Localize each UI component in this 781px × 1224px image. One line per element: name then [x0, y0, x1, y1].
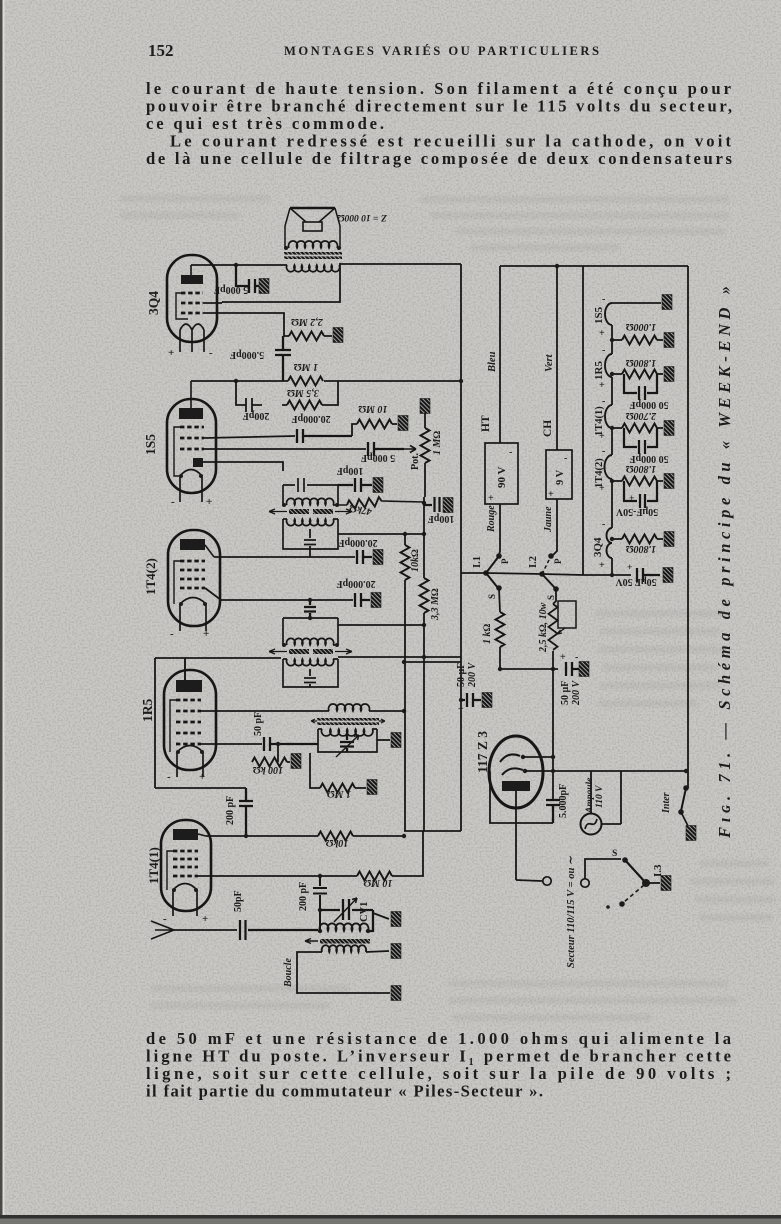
svg-text:-: - — [602, 519, 605, 530]
wire: commutation bus row — [461, 573, 583, 575]
capacitor 200pF + resistor 3,5M branch — [236, 381, 262, 412]
svg-text:1S5: 1S5 — [143, 434, 158, 455]
svg-text:50 000pF: 50 000pF — [629, 453, 668, 464]
node 200pF junction — [244, 834, 248, 838]
ground terminal — [391, 912, 401, 927]
tube 1T4(1) grid bracket — [167, 851, 173, 890]
svg-text:100 kΩ: 100 kΩ — [253, 764, 284, 775]
svg-text:50 μF: 50 μF — [456, 663, 467, 687]
svg-text:200 pF: 200 pF — [298, 882, 309, 911]
wire: filament to lamp row — [525, 770, 686, 772]
svg-text:1.800Ω: 1.800Ω — [626, 357, 657, 368]
tube 1S5 envelope — [167, 399, 216, 493]
svg-text:I.3: I.3 — [652, 864, 664, 877]
svg-text:-: - — [564, 453, 567, 464]
capacitor 20.000pF screen — [355, 593, 370, 607]
svg-text:10 MΩ: 10 MΩ — [358, 403, 387, 414]
tube 3Q4 grids — [181, 293, 203, 313]
svg-text:Bleu: Bleu — [487, 351, 498, 373]
svg-text:il fait partie du commutateur: il fait partie du commutateur « Piles-Se… — [146, 1082, 543, 1101]
resistor 1.000 ohm — [612, 339, 622, 341]
tube 1R5 grids — [176, 700, 201, 744]
tube 1T4(1) envelope — [161, 820, 211, 911]
wire: antenna row — [174, 929, 237, 931]
svg-text:Ampoule: Ampoule — [585, 777, 595, 814]
svg-text:Boucle: Boucle — [283, 958, 294, 988]
capacitor IF2 top coupling — [304, 600, 316, 618]
variable capacitor CV1 — [320, 899, 373, 931]
svg-text:1.800Ω: 1.800Ω — [626, 543, 657, 554]
node — [422, 623, 426, 627]
svg-text:100pF: 100pF — [337, 465, 364, 476]
lamp vertical — [590, 771, 592, 813]
svg-text:10kΩ: 10kΩ — [325, 837, 348, 848]
left page edge — [0, 0, 3, 1224]
svg-text:1 MΩ: 1 MΩ — [432, 431, 443, 455]
svg-text:1 kΩ: 1 kΩ — [482, 624, 493, 645]
svg-text:+: + — [627, 563, 632, 573]
svg-text:-: - — [602, 396, 605, 407]
wire: B+ vertical rail — [460, 264, 462, 831]
capacitor 100pF IF1 — [338, 478, 372, 492]
node — [551, 667, 555, 671]
resistor 100k — [252, 758, 287, 767]
node CV1 junction — [318, 908, 322, 912]
wire: right rail — [687, 266, 689, 788]
tube 1R5 anode — [176, 680, 202, 692]
svg-text:+: + — [560, 652, 566, 663]
battery HT 90V box — [485, 443, 518, 504]
ground terminal — [291, 754, 301, 769]
tube 1T4(2) envelope — [168, 530, 220, 626]
wire: cathode vertical to rectifier — [552, 669, 554, 800]
svg-text:9 V: 9 V — [555, 469, 566, 485]
wire: Bleu line — [499, 266, 501, 443]
tube 1T4(2) grids — [180, 561, 205, 588]
svg-text:200 pF: 200 pF — [225, 796, 236, 825]
wire: Jaune line — [552, 499, 557, 556]
svg-text:+: + — [599, 560, 605, 571]
resistor 1M — [288, 377, 323, 386]
svg-text:S: S — [487, 594, 497, 599]
oscillator coil L1 top winding — [201, 710, 329, 712]
wire: 117Z3 left loop — [490, 771, 553, 823]
wire: cathode line — [515, 791, 517, 880]
svg-text:5.000pF: 5.000pF — [230, 349, 264, 360]
svg-text:1T4(2): 1T4(2) — [143, 558, 158, 595]
node — [555, 264, 559, 268]
svg-text:-: - — [509, 447, 512, 458]
node: anode junction — [234, 263, 238, 267]
wire: long row IF2 secondary bus — [338, 656, 461, 658]
IF transformer IF2 primary loop — [283, 618, 338, 645]
tube 3Q4 filament — [180, 324, 204, 352]
IF2 secondary coil — [287, 659, 334, 666]
svg-text:50 μF: 50 μF — [560, 681, 571, 705]
svg-text:20.000pF: 20.000pF — [336, 578, 375, 589]
svg-text:Pot.: Pot. — [410, 453, 421, 470]
117Z3 anode — [502, 781, 530, 791]
svg-text:1S5: 1S5 — [593, 306, 605, 324]
oscillator coil core — [317, 718, 379, 721]
resistor 10k — [318, 832, 353, 841]
svg-text:+: + — [168, 347, 174, 359]
svg-text:I.1: I.1 — [472, 556, 483, 568]
bottom page edge — [0, 1215, 781, 1219]
wire: HT top rail — [500, 265, 688, 267]
resistor 2,2M grid leak — [289, 332, 324, 341]
resistor 1.800 ohm output — [612, 538, 622, 540]
cell polarity labels — [599, 294, 605, 571]
svg-text:5.000pF: 5.000pF — [558, 784, 569, 818]
resistor 1M osc — [310, 753, 320, 788]
ground terminal — [373, 550, 383, 565]
resistor 3,5M — [287, 401, 322, 410]
svg-text:5 000pF: 5 000pF — [361, 452, 395, 463]
svg-text:1T4(1): 1T4(1) — [594, 406, 605, 436]
IF2 secondary trimmer — [304, 669, 316, 687]
tube 1T4(2) anode — [180, 539, 205, 550]
wire: bottom tie row — [404, 830, 461, 832]
svg-text:+: + — [599, 380, 605, 391]
svg-text:Fɪɢ. 71. — Schéma de principe: Fɪɢ. 71. — Schéma de principe du « WEEK-… — [715, 286, 734, 839]
svg-text:3,5 MΩ: 3,5 MΩ — [287, 387, 320, 398]
tube 1S5 anode — [179, 408, 203, 419]
IF2 primary coil — [287, 638, 334, 645]
capacitor 50uF 50V parallel loop — [624, 481, 657, 508]
resistor 10M — [357, 872, 392, 881]
svg-text:50 pF: 50 pF — [253, 712, 264, 736]
oscillator padder capacitor — [340, 733, 354, 752]
capacitor 200pF — [239, 788, 253, 836]
rectifier tube 117Z3 envelope — [489, 736, 543, 808]
svg-text:1R5: 1R5 — [593, 361, 605, 380]
wire: AF bus row — [191, 380, 461, 382]
capacitor 50uF 50V bus — [637, 568, 660, 582]
tube 1T4(1) filament — [173, 884, 197, 917]
resistor 1.800 ohm second — [612, 480, 622, 482]
input coil core — [320, 939, 370, 944]
svg-text:5 000pF: 5 000pF — [214, 284, 248, 295]
ground terminal — [371, 593, 381, 608]
wire: osc box to terminal — [377, 739, 390, 741]
loudspeaker — [285, 208, 340, 248]
svg-text:-: - — [575, 652, 578, 663]
wiper arrow into potentiometer — [404, 446, 416, 453]
capacitor 200pF grid — [313, 876, 327, 931]
wire: CV1 to terminal — [373, 913, 389, 919]
wire: IF1 secondary to 1T4(2) grid — [309, 549, 311, 557]
wire: parallel row — [404, 661, 461, 663]
svg-text:2,5 kΩ, 10w: 2,5 kΩ, 10w — [538, 602, 549, 653]
svg-text:50 000pF: 50 000pF — [629, 399, 668, 410]
capacitor 50pF — [264, 737, 318, 751]
IF1 secondary coil — [287, 519, 334, 526]
resistor 10M — [357, 420, 392, 429]
frame aerial (boucle) winding — [322, 945, 366, 952]
wire: boucle to terminal — [366, 951, 389, 952]
resistor 3,3M vertical — [420, 578, 429, 613]
capacitor 5.000pF RF filter — [546, 800, 560, 823]
capacitor 5.000pF coupling — [275, 336, 291, 381]
svg-text:+: + — [548, 489, 554, 500]
svg-text:-: - — [170, 628, 174, 640]
svg-text:10 MΩ: 10 MΩ — [363, 877, 392, 888]
wire: battery bottom bus — [583, 574, 631, 576]
paragraph bottom — [146, 1029, 732, 1101]
svg-text:Rouge: Rouge — [486, 505, 497, 533]
ground terminal — [482, 693, 492, 708]
svg-text:Z = 10 000Ω: Z = 10 000Ω — [337, 212, 388, 222]
wire: B+ line to right rail — [340, 263, 461, 265]
node — [308, 598, 312, 602]
ghost print-through — [120, 195, 775, 1021]
wire: filament to B plus — [523, 756, 553, 758]
wire: IF2 to 1R5 grid — [155, 658, 281, 788]
ground terminal — [391, 733, 401, 748]
svg-text:+: + — [629, 494, 634, 504]
transformer T1 core — [284, 252, 342, 255]
wire: 1R5 osc grid row — [201, 743, 262, 745]
IF transformer IF2 secondary loop — [283, 659, 338, 687]
svg-text:-: - — [171, 496, 175, 508]
wire: 1T4(1) grid row — [198, 875, 357, 877]
tube 1S5 grid bracket — [174, 427, 180, 476]
output transformer T1 primary — [287, 265, 340, 272]
capacitor 5000pF AVC — [368, 442, 404, 456]
svg-text:+: + — [199, 771, 205, 783]
svg-text:50μF-50V: 50μF-50V — [615, 506, 658, 517]
tube 1R5 filament — [177, 746, 203, 778]
capacitor 50 000pF parallel loop — [624, 428, 657, 454]
svg-text:1T4(1): 1T4(1) — [146, 847, 161, 884]
tube 1T4(1) grids — [173, 851, 198, 876]
tube 3Q4 grid bracket — [176, 293, 188, 319]
svg-text:110 V: 110 V — [595, 785, 605, 808]
IF2 core — [289, 649, 309, 654]
capacitor 20.000pF — [297, 429, 352, 443]
resistor 1.800 ohm — [612, 373, 622, 375]
tube 1T4(1) anode — [173, 829, 198, 840]
tube 1S5 diode plate — [193, 458, 203, 467]
wire: AVC row — [338, 533, 424, 535]
resistor 10k vertical — [401, 545, 410, 580]
output transformer T1 secondary (voice coil winding) — [289, 241, 338, 248]
svg-text:1 MΩ: 1 MΩ — [327, 788, 351, 799]
svg-text:2.700Ω: 2.700Ω — [626, 410, 658, 421]
wire: boucle left leg — [297, 952, 390, 993]
svg-text:+: + — [206, 496, 212, 508]
paragraph top — [146, 79, 733, 168]
battery CH 9V box — [546, 450, 572, 499]
svg-text:HT: HT — [480, 415, 492, 432]
svg-text:117 Z 3: 117 Z 3 — [475, 731, 490, 773]
wire: 1T4(2) screen row — [205, 588, 353, 600]
wire: Rouge line — [499, 504, 500, 555]
node — [234, 379, 238, 383]
wire: row to IF2 — [338, 624, 424, 626]
wire: 3Q4 anode to T1 primary — [191, 264, 287, 266]
wire: 1S5 diode row — [204, 448, 366, 450]
svg-text:-: - — [163, 913, 167, 925]
antenna — [151, 921, 174, 939]
svg-text:-: - — [602, 294, 605, 305]
oscillator coil loop — [318, 729, 377, 752]
svg-text:Inter: Inter — [661, 792, 672, 814]
ground terminal (chassis block) — [259, 279, 269, 294]
wire: 1S5 grid row to 20.000pF — [204, 436, 295, 438]
capacitor 50uF 200V second filter — [566, 662, 580, 676]
oscillator secondary coil — [322, 729, 373, 736]
117Z3 filament — [500, 754, 523, 775]
capacitor 100pF pot coupling — [424, 497, 440, 512]
wire: AVC vertical rail — [404, 534, 406, 831]
svg-text:P: P — [500, 558, 510, 564]
svg-text:10kΩ: 10kΩ — [410, 549, 421, 572]
svg-text:S: S — [546, 595, 556, 600]
svg-text:1.000Ω: 1.000Ω — [626, 321, 657, 332]
tube 1T4(2) filament — [180, 598, 206, 632]
wire: 1T4(2) anode row — [214, 556, 355, 558]
svg-text:CH: CH — [542, 420, 554, 437]
ground terminal — [391, 944, 401, 959]
svg-text:+: + — [488, 493, 494, 504]
tube 3Q4 grid leads — [203, 303, 222, 313]
svg-text:3Q4: 3Q4 — [146, 291, 161, 315]
tube 1T4(2) grid bracket — [174, 561, 180, 604]
wire: grid leak drop — [277, 744, 279, 762]
switch I1 — [483, 570, 489, 576]
wire: Vert line — [556, 266, 558, 450]
svg-text:Secteur 110/115 V = ou ∼: Secteur 110/115 V = ou ∼ — [566, 855, 577, 968]
wire: 1T4(1) anode row — [206, 835, 318, 837]
wire: oscillator vertical rail — [423, 497, 425, 831]
wire: 3Q4 grid row — [215, 313, 284, 336]
battery filament chain — [605, 303, 612, 558]
svg-text:-: - — [602, 446, 605, 457]
svg-text:200pF: 200pF — [243, 410, 270, 421]
capacitor 5000pF anode bypass — [236, 265, 259, 293]
IF transformer IF1 secondary loop — [283, 519, 338, 549]
svg-text:-: - — [602, 345, 605, 356]
ground terminal — [391, 986, 401, 1001]
mains plug left pin — [516, 880, 542, 881]
svg-text:3,3 MΩ: 3,3 MΩ — [430, 588, 441, 621]
svg-text:-: - — [167, 771, 171, 783]
ground terminal — [579, 662, 589, 677]
wire: battery top row — [612, 302, 661, 304]
IF transformer IF1 primary loop — [283, 478, 338, 505]
IF1 core — [289, 509, 309, 514]
svg-text:1 MΩ: 1 MΩ — [294, 361, 318, 372]
ground terminal — [662, 295, 672, 310]
tube 3Q4 envelope — [167, 255, 217, 342]
potentiometer terminal — [420, 399, 430, 414]
ground terminal — [373, 478, 383, 493]
capacitor 50pF antenna — [240, 920, 318, 940]
resistor 2.700 ohm — [612, 427, 622, 429]
node — [459, 379, 463, 383]
svg-text:20.000pF: 20.000pF — [338, 537, 377, 548]
capacitor 50uF 200V filter — [461, 693, 481, 707]
svg-text:200 V: 200 V — [467, 662, 478, 689]
svg-text:I.2: I.2 — [528, 556, 539, 568]
potentiometer Pot 1M body — [424, 413, 426, 428]
svg-text:Vert: Vert — [544, 353, 555, 372]
wire: rectifier output row — [500, 668, 558, 670]
svg-text:+: + — [599, 328, 605, 339]
switch I3 — [622, 857, 628, 863]
svg-text:+: + — [458, 704, 464, 715]
svg-text:200 V: 200 V — [571, 680, 582, 707]
svg-text:20.000pF: 20.000pF — [291, 413, 330, 424]
resistor 1k vertical — [499, 588, 500, 612]
resistor 47k — [347, 497, 383, 510]
tube 1R5 envelope — [164, 670, 216, 770]
svg-text:S: S — [612, 849, 617, 859]
svg-text:+: + — [202, 913, 208, 925]
mains plug right pin — [581, 879, 589, 887]
node — [318, 874, 322, 878]
svg-text:MONTAGES VARIÉS OU PARTICULIER: MONTAGES VARIÉS OU PARTICULIERS — [284, 44, 600, 58]
ground terminal — [367, 780, 377, 795]
svg-text:-: - — [209, 347, 213, 359]
tube 1S5 filament — [180, 470, 202, 503]
tube 1R5 grid bracket — [170, 700, 176, 752]
input coil winding L3 — [320, 923, 369, 931]
capacitor 20.000pF — [357, 550, 372, 564]
wire: riser to 10M row — [352, 424, 357, 436]
switch I2 — [539, 571, 545, 577]
svg-text:1R5: 1R5 — [140, 699, 155, 722]
svg-text:P: P — [553, 558, 563, 564]
wire: 1S5 diode plate row to IF1 — [203, 462, 283, 471]
svg-text:100pF: 100pF — [428, 513, 455, 524]
tube 3Q4 anode — [181, 275, 203, 284]
svg-text:CV1: CV1 — [359, 902, 370, 922]
wire: 1R5 filament row — [155, 787, 246, 789]
svg-text:90 V: 90 V — [496, 466, 508, 488]
node: coil input junction — [318, 929, 322, 933]
wire: battery left rail — [582, 266, 584, 575]
tube 1S5 grids — [180, 427, 204, 449]
svg-text:2,2 MΩ: 2,2 MΩ — [291, 316, 324, 327]
svg-text:152: 152 — [148, 41, 174, 60]
svg-text:3Q4: 3Q4 — [592, 537, 604, 557]
switch Inter — [683, 785, 689, 791]
IF1 primary coil — [287, 498, 334, 505]
ground terminal — [443, 498, 453, 513]
svg-text:ce qui est très commode.: ce qui est très commode. — [146, 114, 384, 133]
IF1 secondary trimmer — [304, 529, 316, 549]
resistor 2,5k 10w vertical — [553, 589, 556, 604]
svg-text:50μF 50V: 50μF 50V — [615, 576, 657, 587]
capacitor 50 000pF parallel loop — [624, 374, 657, 400]
ground terminal — [398, 416, 408, 431]
svg-text:1.800Ω: 1.800Ω — [626, 463, 657, 474]
node — [402, 834, 406, 838]
wire: screen/B+ loop under transformer — [222, 263, 340, 303]
svg-text:Jaune: Jaune — [543, 506, 554, 533]
svg-text:+: + — [203, 628, 209, 640]
svg-text:1T4(2): 1T4(2) — [594, 458, 605, 488]
ground terminal — [333, 328, 343, 343]
pilot lamp Ampoule 110V — [581, 814, 602, 835]
node — [422, 655, 426, 659]
svg-text:ligne, soit sur cette cellule,: ligne, soit sur cette cellule, soit sur … — [146, 1064, 731, 1083]
svg-text:50pF: 50pF — [233, 890, 244, 912]
